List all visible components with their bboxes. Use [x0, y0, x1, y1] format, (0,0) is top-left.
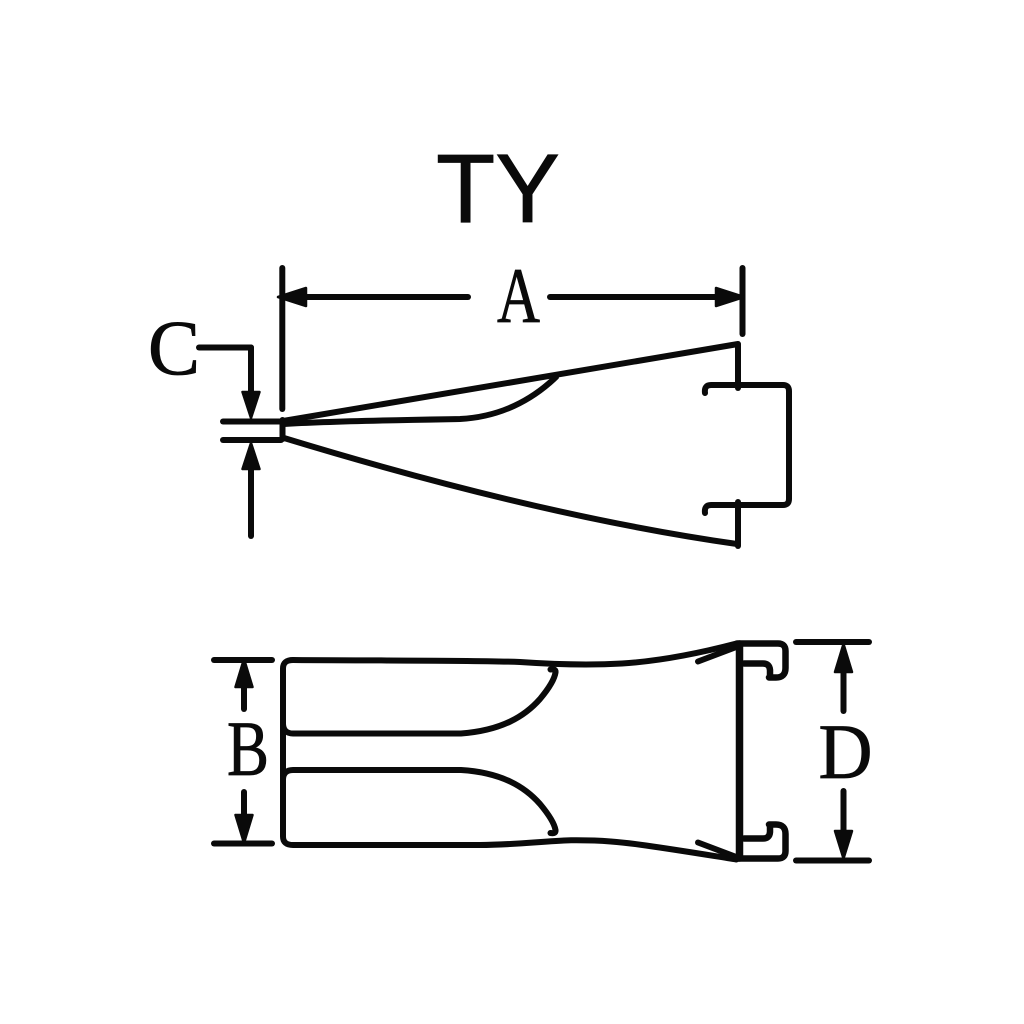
svg-text:A: A [497, 252, 540, 339]
svg-text:B: B [227, 705, 269, 792]
svg-text:C: C [148, 304, 200, 391]
svg-text:D: D [819, 708, 873, 795]
svg-text:TY: TY [436, 134, 560, 243]
